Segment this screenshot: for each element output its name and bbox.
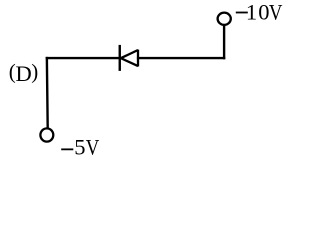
label (D) — [9, 59, 38, 86]
label -5V — [61, 135, 99, 160]
terminal -10V — [218, 13, 231, 25]
wire — [137, 57, 225, 59]
wire — [223, 26, 225, 60]
diode D — [120, 45, 138, 71]
svg-text:(D): (D) — [9, 59, 38, 86]
svg-text:V: V — [86, 136, 100, 160]
label -10V — [236, 0, 283, 25]
wire — [46, 57, 49, 128]
svg-text:V: V — [269, 1, 283, 25]
terminal -5V — [40, 128, 53, 141]
svg-text:10: 10 — [246, 0, 271, 25]
wire — [46, 57, 121, 59]
svg-text:5: 5 — [74, 135, 85, 160]
